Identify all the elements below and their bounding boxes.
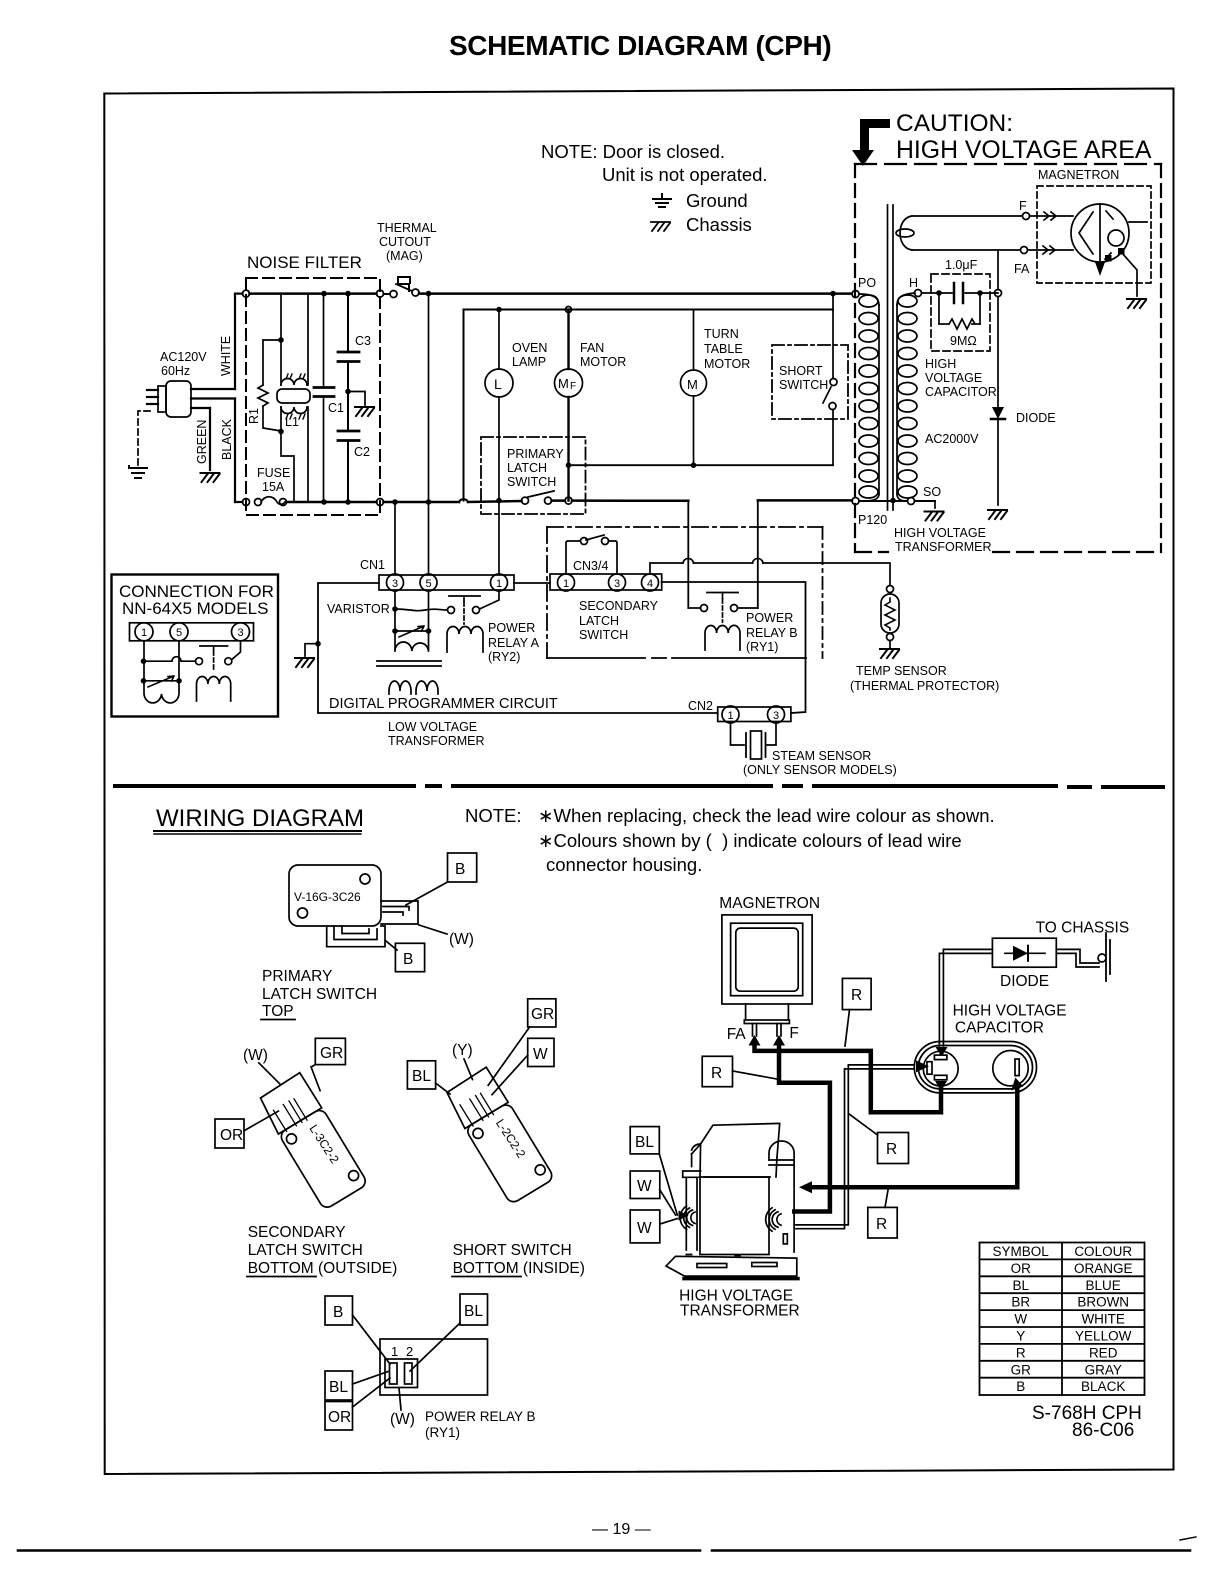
svg-text:R: R [851,987,862,1004]
svg-text:POWER: POWER [746,611,793,625]
svg-text:GRAY: GRAY [1085,1362,1122,1377]
svg-text:B: B [333,1304,343,1321]
svg-text:NOTE: Door is closed.: NOTE: Door is closed. [541,141,725,162]
svg-text:(RY1): (RY1) [425,1425,460,1440]
svg-text:GR: GR [531,1006,554,1023]
svg-text:PRIMARY: PRIMARY [507,447,564,461]
svg-text:V-16G-3C26: V-16G-3C26 [294,890,361,904]
svg-text:BOTTOM (OUTSIDE): BOTTOM (OUTSIDE) [248,1260,398,1277]
svg-text:SECONDARY: SECONDARY [579,599,659,613]
svg-text:DIODE: DIODE [1016,411,1056,425]
svg-text:C1: C1 [328,401,344,415]
svg-text:ORANGE: ORANGE [1074,1261,1133,1276]
svg-text:WIRING DIAGRAM: WIRING DIAGRAM [156,805,364,832]
svg-text:RELAY A: RELAY A [488,636,540,650]
svg-text:BOTTOM (INSIDE): BOTTOM (INSIDE) [453,1260,585,1277]
svg-text:SCHEMATIC DIAGRAM (CPH): SCHEMATIC DIAGRAM (CPH) [449,30,831,61]
svg-text:TURN: TURN [704,327,739,341]
svg-text:SO: SO [923,485,941,499]
svg-text:60Hz: 60Hz [161,364,190,378]
svg-text:B: B [1016,1379,1025,1394]
svg-text:(W): (W) [449,931,474,948]
svg-text:R: R [876,1216,887,1233]
svg-text:F: F [789,1025,798,1042]
svg-text:SWITCH: SWITCH [579,628,628,642]
svg-text:COLOUR: COLOUR [1074,1244,1132,1259]
svg-text:BL: BL [329,1379,348,1396]
svg-text:THERMAL: THERMAL [377,221,437,235]
svg-text:CN2: CN2 [688,699,713,713]
svg-text:(RY2): (RY2) [488,650,520,664]
svg-text:POWER RELAY B: POWER RELAY B [425,1409,536,1424]
svg-text:OVEN: OVEN [512,341,547,355]
svg-text:BL: BL [464,1303,483,1320]
svg-text:B: B [403,951,413,968]
svg-text:BL: BL [1012,1278,1029,1293]
svg-text:F: F [570,381,576,392]
svg-text:LAMP: LAMP [512,355,546,369]
svg-text:RELAY B: RELAY B [746,626,798,640]
svg-text:B: B [455,861,465,878]
svg-text:BROWN: BROWN [1077,1295,1129,1310]
svg-text:15A: 15A [262,480,285,494]
svg-text:MAGNETRON: MAGNETRON [719,895,820,912]
svg-text:HIGH VOLTAGE AREA: HIGH VOLTAGE AREA [896,137,1152,164]
svg-text:(W): (W) [390,1411,415,1428]
svg-text:LATCH: LATCH [579,614,619,628]
svg-text:1.0μF: 1.0μF [945,258,978,272]
svg-text:(W): (W) [243,1047,268,1064]
svg-text:— 19 —: — 19 — [592,1521,651,1538]
svg-text:BL: BL [412,1068,431,1085]
svg-text:CN1: CN1 [360,558,385,572]
svg-text:NOISE FILTER: NOISE FILTER [247,253,362,272]
svg-text:9MΩ: 9MΩ [950,334,977,348]
svg-text:NOTE:: NOTE: [465,805,522,826]
svg-text:∗When replacing, check the lea: ∗When replacing, check the lead wire col… [538,805,995,826]
svg-text:5: 5 [176,627,182,639]
svg-text:GREEN: GREEN [195,420,209,464]
svg-text:WHITE: WHITE [219,336,233,376]
svg-text:Unit is not operated.: Unit is not operated. [602,164,768,185]
svg-text:86-C06: 86-C06 [1072,1420,1134,1441]
svg-text:DIGITAL PROGRAMMER CIRCUIT: DIGITAL PROGRAMMER CIRCUIT [329,696,558,712]
svg-text:TABLE: TABLE [704,342,743,356]
svg-text:R: R [886,1141,897,1158]
svg-text:LATCH SWITCH: LATCH SWITCH [262,986,377,1003]
svg-text:R1: R1 [247,408,261,424]
svg-text:C2: C2 [354,445,370,459]
svg-text:3: 3 [773,710,779,722]
svg-text:CUTOUT: CUTOUT [379,235,431,249]
svg-text:CAPACITOR: CAPACITOR [925,385,997,399]
svg-text:3: 3 [614,578,620,590]
svg-text:STEAM SENSOR: STEAM SENSOR [772,749,871,763]
svg-text:GR: GR [1011,1362,1032,1377]
svg-text:W: W [637,1178,652,1195]
svg-text:BR: BR [1011,1295,1030,1310]
svg-text:H: H [909,276,918,290]
svg-text:MOTOR: MOTOR [704,357,750,371]
svg-text:W: W [1014,1312,1027,1327]
svg-text:W: W [533,1046,548,1063]
svg-text:(THERMAL PROTECTOR): (THERMAL PROTECTOR) [850,679,999,693]
svg-text:LOW VOLTAGE: LOW VOLTAGE [388,720,477,734]
svg-text:LATCH: LATCH [507,461,547,475]
svg-text:NN-64X5 MODELS: NN-64X5 MODELS [122,599,268,618]
svg-text:FAN: FAN [580,341,604,355]
svg-text:3: 3 [238,627,244,639]
svg-text:1: 1 [728,710,734,722]
svg-text:1: 1 [563,578,569,590]
svg-text:TRANSFORMER: TRANSFORMER [680,1303,800,1320]
svg-text:BL: BL [635,1134,654,1151]
svg-text:CN3/4: CN3/4 [573,559,608,573]
svg-text:MAGNETRON: MAGNETRON [1038,168,1119,182]
svg-text:SYMBOL: SYMBOL [993,1244,1050,1259]
svg-text:(RY1): (RY1) [746,640,778,654]
svg-text:AC120V: AC120V [160,350,207,364]
svg-text:VARISTOR: VARISTOR [327,602,390,616]
svg-text:BLACK: BLACK [220,418,234,460]
svg-text:MOTOR: MOTOR [580,355,626,369]
svg-text:RED: RED [1089,1345,1118,1360]
svg-text:POWER: POWER [488,621,535,635]
svg-text:YELLOW: YELLOW [1075,1329,1132,1344]
svg-text:4: 4 [647,578,653,590]
svg-text:HIGH VOLTAGE: HIGH VOLTAGE [894,526,986,540]
svg-text:GR: GR [320,1045,343,1062]
svg-text:(ONLY SENSOR MODELS): (ONLY SENSOR MODELS) [743,763,897,777]
svg-text:SHORT SWITCH: SHORT SWITCH [453,1242,572,1259]
svg-text:PO: PO [858,276,876,290]
svg-text:WHITE: WHITE [1081,1312,1125,1327]
svg-text:(Y): (Y) [452,1042,473,1059]
svg-text:SWITCH: SWITCH [779,378,828,392]
svg-text:TOP: TOP [262,1003,294,1020]
svg-text:M: M [558,376,569,391]
svg-text:VOLTAGE: VOLTAGE [925,371,982,385]
svg-text:Y: Y [1016,1329,1025,1344]
svg-text:3: 3 [392,578,398,590]
svg-text:SWITCH: SWITCH [507,475,556,489]
svg-text:DIODE: DIODE [1000,973,1049,990]
svg-text:P120: P120 [858,513,887,527]
svg-text:R: R [1016,1345,1026,1360]
svg-text:BLACK: BLACK [1081,1379,1125,1394]
svg-text:FUSE: FUSE [257,466,290,480]
svg-text:TRANSFORMER: TRANSFORMER [895,540,992,554]
svg-text:TRANSFORMER: TRANSFORMER [388,734,485,748]
svg-text:HIGH VOLTAGE: HIGH VOLTAGE [953,1003,1067,1020]
svg-text:TO CHASSIS: TO CHASSIS [1036,920,1130,937]
svg-text:∗Colours shown by ( ) indicat: ∗Colours shown by ( ) indicate colours o… [538,830,962,851]
svg-text:Ground: Ground [686,190,748,211]
svg-text:TEMP SENSOR: TEMP SENSOR [856,664,947,678]
svg-text:connector housing.: connector housing. [546,854,702,875]
svg-text:C3: C3 [355,334,371,348]
svg-text:L: L [494,376,502,392]
svg-text:(MAG): (MAG) [386,249,423,263]
svg-text:SHORT: SHORT [779,364,823,378]
svg-text:OR: OR [220,1127,243,1144]
svg-text:F: F [1019,199,1027,213]
svg-text:PRIMARY: PRIMARY [262,968,332,985]
svg-text:SECONDARY: SECONDARY [248,1224,346,1241]
svg-text:OR: OR [328,1409,351,1426]
svg-text:FA: FA [1014,262,1030,276]
svg-text:LATCH SWITCH: LATCH SWITCH [248,1242,363,1259]
svg-text:5: 5 [426,578,432,590]
svg-text:CAUTION:: CAUTION: [896,110,1013,137]
svg-text:M: M [687,377,698,392]
svg-text:1: 1 [496,578,502,590]
svg-text:W: W [637,1220,652,1237]
svg-text:L1: L1 [285,415,299,429]
svg-text:OR: OR [1011,1261,1032,1276]
svg-text:BLUE: BLUE [1086,1278,1121,1293]
svg-text:Chassis: Chassis [686,214,752,235]
svg-text:2: 2 [406,1344,413,1359]
svg-text:FA: FA [727,1026,747,1043]
svg-text:HIGH: HIGH [925,357,956,371]
svg-text:AC2000V: AC2000V [925,432,979,446]
svg-text:CAPACITOR: CAPACITOR [955,1020,1044,1037]
svg-text:1: 1 [391,1344,398,1359]
svg-text:1: 1 [141,627,147,639]
svg-text:R: R [711,1065,722,1082]
